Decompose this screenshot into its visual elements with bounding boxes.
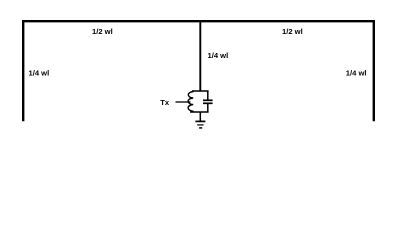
svg-text:1/2 wl: 1/2 wl (282, 27, 303, 36)
inductor L1 coil (188, 92, 194, 112)
wire tank bottom rail (190, 111, 209, 113)
svg-text:1/4 wl: 1/4 wl (29, 68, 50, 77)
wire right vertical element (373, 20, 375, 121)
wire tank top rail (192, 90, 209, 92)
ground symbol bar 3 (199, 127, 202, 129)
wire capacitor top lead (207, 91, 209, 100)
ground symbol bar 1 (195, 120, 205, 122)
wire top horizontal rail (22, 20, 375, 22)
wire capacitor bottom lead (207, 104, 209, 112)
svg-text:Tx: Tx (160, 98, 170, 107)
ground symbol bar 2 (197, 124, 203, 126)
wire center vertical element (199, 21, 201, 91)
svg-text:1/4 wl: 1/4 wl (208, 51, 229, 60)
svg-text:1/2 wl: 1/2 wl (92, 27, 113, 36)
capacitor C1 top plate (203, 99, 213, 101)
wire Tx feed lead (176, 101, 191, 103)
wire left vertical element (22, 20, 24, 121)
capacitor C1 bottom plate (203, 102, 213, 104)
svg-text:1/4 wl: 1/4 wl (346, 68, 367, 77)
wire ground stub (199, 112, 201, 121)
